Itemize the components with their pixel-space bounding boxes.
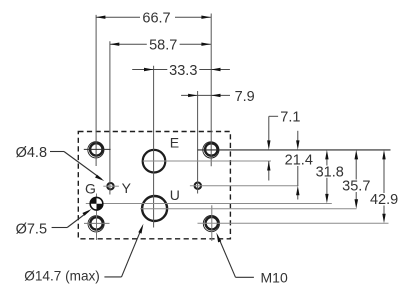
svg-text:U: U <box>170 187 180 203</box>
svg-text:Y: Y <box>122 180 132 196</box>
crosshair top-left bolt <box>84 148 111 150</box>
svg-text:7.9: 7.9 <box>235 89 255 105</box>
svg-text:35.7: 35.7 <box>342 179 370 195</box>
extension line x=96 (66.7 datum, through top-left bolt) <box>95 15 97 166</box>
valve mounting face outline (dashed) <box>78 132 230 239</box>
svg-text:58.7: 58.7 <box>149 38 177 54</box>
svg-text:21.4: 21.4 <box>285 152 313 168</box>
svg-text:7.1: 7.1 <box>280 109 300 125</box>
dimension 42.9 <box>370 150 398 223</box>
svg-text:Ø4.8: Ø4.8 <box>16 145 47 161</box>
label M10 with leader to bottom-right bolt <box>216 233 288 286</box>
dimension 33.3 <box>132 63 230 79</box>
bolt hole bottom-left <box>88 216 104 232</box>
centerline G hole + bottom-left bolt <box>96 194 98 241</box>
small pilot hole right <box>195 183 201 189</box>
extension line x=153.6 (33.3 datum, through E and U ports) <box>153 66 155 228</box>
leader line L4 from G hole <box>86 203 332 205</box>
leader line L2 from port E <box>143 160 271 162</box>
bolt hole top-right <box>203 142 219 158</box>
G hole (datum target, quadrant filled) <box>90 197 104 211</box>
svg-text:33.3: 33.3 <box>169 63 197 79</box>
label Ø14.7 (max) with leader to port U <box>24 224 143 284</box>
crosshair bottom-left bolt <box>84 222 110 224</box>
port U circle (Ø14.7 max) <box>142 196 167 221</box>
svg-text:Ø7.5: Ø7.5 <box>16 221 47 237</box>
dimension 21.4 (outside arrows) <box>285 131 313 200</box>
svg-text:Ø14.7 (max): Ø14.7 (max) <box>24 268 100 283</box>
dimension 66.7 <box>96 11 211 27</box>
extension line x=211 (right datum, through top-right bolt) <box>210 14 212 167</box>
dimension 35.7 <box>342 150 370 209</box>
leader line L6 from bottom-right bolt <box>198 222 389 224</box>
bolt hole bottom-right M10 <box>203 216 219 232</box>
leader line L3 from small pilot hole <box>190 185 299 187</box>
label Ø4.8 with leader to Y hole <box>16 145 105 181</box>
bolt hole top-left <box>88 142 104 158</box>
svg-text:42.9: 42.9 <box>370 192 398 208</box>
extension line x=197.6 (7.9 datum, to small pilot hole) <box>197 91 199 194</box>
leader line L1 from top-right bolt <box>198 149 391 151</box>
svg-text:66.7: 66.7 <box>142 11 170 27</box>
dimension 31.8 <box>316 150 344 204</box>
dimension 7.9 <box>181 89 255 105</box>
port E circle <box>143 150 166 173</box>
dimension 7.1 (bracket + outside arrows) <box>267 109 300 180</box>
dimension 58.7 <box>110 38 211 54</box>
svg-text:31.8: 31.8 <box>316 164 344 180</box>
svg-text:M10: M10 <box>261 270 288 286</box>
extension line x=110 (58.7 datum, to Y hole) <box>109 41 111 194</box>
svg-text:G: G <box>85 181 96 197</box>
svg-text:E: E <box>170 135 179 151</box>
crosshair Y hole <box>103 185 119 187</box>
leader line L5 from port U <box>140 208 356 210</box>
label Ø7.5 with leader to G hole <box>16 209 92 237</box>
Y hole (Ø4.8) <box>107 183 113 189</box>
centerline bottom-right bolt <box>211 205 213 241</box>
